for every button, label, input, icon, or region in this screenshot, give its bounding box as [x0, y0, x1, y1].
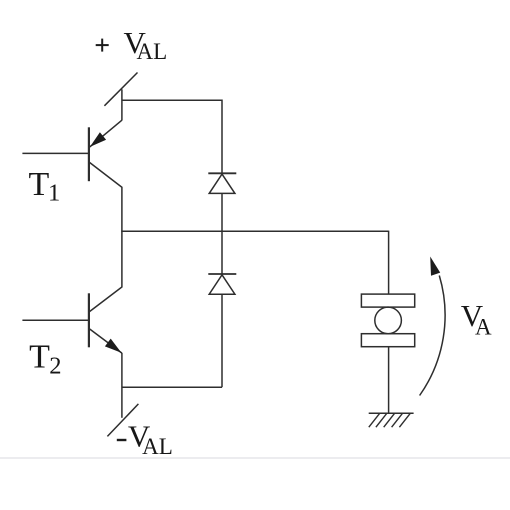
- svg-text:AL: AL: [137, 39, 168, 64]
- motor M (armature symbol): [361, 294, 414, 347]
- ground: [369, 413, 414, 427]
- diode D1: [208, 173, 236, 193]
- power label -VAL: [117, 419, 173, 459]
- transistor T1 (PNP): [89, 120, 122, 231]
- wire: motor to ground: [388, 347, 390, 414]
- supply tick (-VAL rail slash): [107, 404, 138, 437]
- wire: bottom rail to D2: [122, 386, 222, 388]
- label T2: [29, 339, 61, 380]
- wire: D1 anode to node: [221, 193, 223, 273]
- supply tick (+VAL rail slash): [104, 73, 137, 106]
- svg-text:AL: AL: [142, 434, 173, 459]
- label T1: [29, 166, 61, 206]
- wire: T1 emitter lead to +VAL: [121, 89, 123, 120]
- svg-text:1: 1: [48, 179, 60, 206]
- wire: T2 emitter lead to -VAL: [121, 353, 123, 418]
- wire: T1 base lead: [22, 152, 89, 154]
- wire: node to motor: [388, 231, 390, 295]
- diode D2: [208, 274, 236, 294]
- svg-text:T: T: [29, 339, 50, 376]
- faint page rule: [0, 457, 510, 459]
- svg-text:A: A: [475, 315, 492, 340]
- label VA: [461, 298, 492, 340]
- transistor T2 (NPN): [89, 231, 122, 353]
- power label +VAL: [96, 25, 167, 64]
- wire: D2 anode to bottom rail: [221, 294, 223, 387]
- wire: T2 base lead: [22, 319, 89, 321]
- svg-text:T: T: [29, 166, 50, 203]
- VA direction arrow (curved): [420, 257, 445, 396]
- node line (output node): [121, 230, 388, 232]
- svg-text:2: 2: [49, 353, 61, 380]
- wire: top rail to diode D1: [122, 100, 222, 173]
